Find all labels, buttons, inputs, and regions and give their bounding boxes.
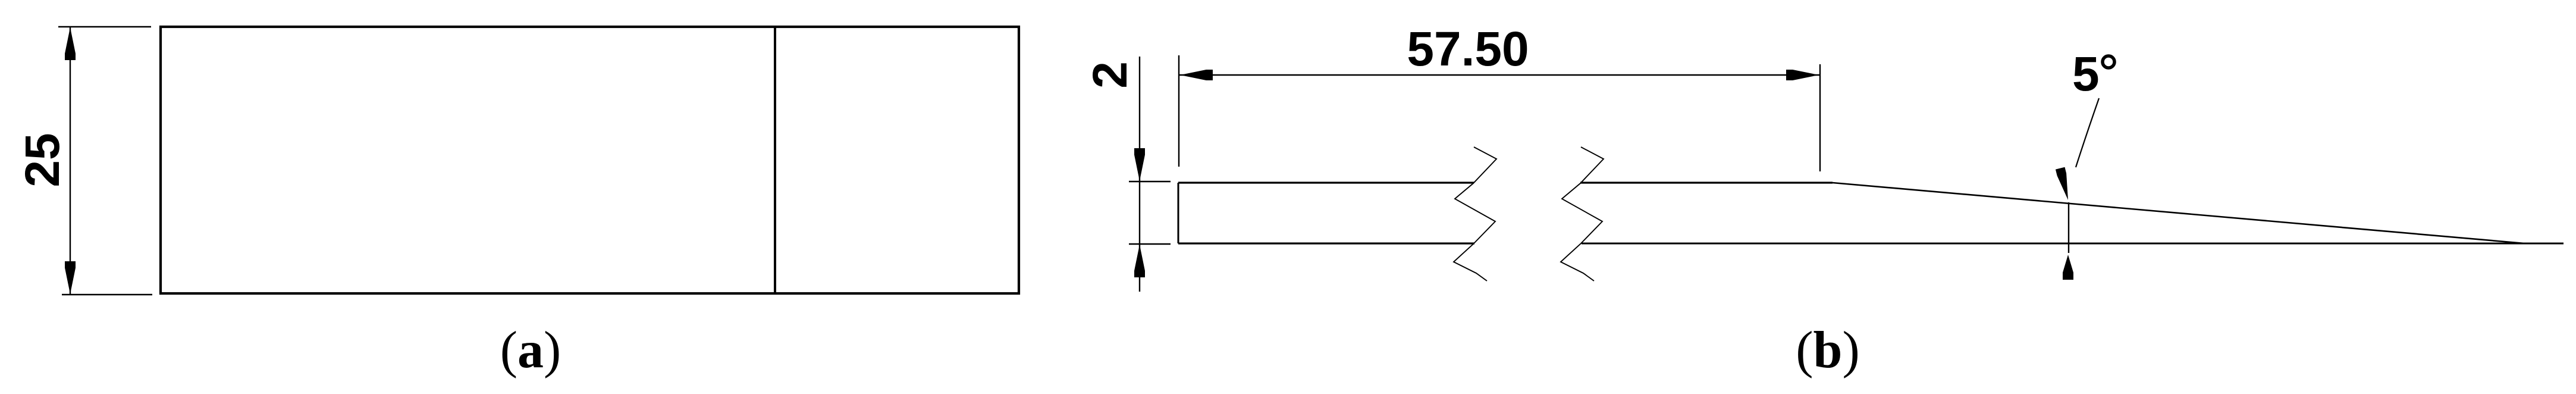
- arrow right (57.50 dim): [1786, 70, 1819, 80]
- degree symbol: [2103, 56, 2114, 68]
- extension line right (57.50 dim): [1819, 64, 1821, 171]
- svg-text:5: 5: [2072, 47, 2100, 101]
- bar left edge (b): [1178, 183, 1179, 243]
- angle arrow up (5 deg bottom): [2063, 255, 2073, 280]
- extension line top (25 dim): [58, 26, 151, 27]
- arrow down (25 dim bottom): [65, 261, 76, 294]
- leader curve (5 deg): [2076, 98, 2099, 167]
- bar top edge right segment (b): [1580, 182, 1833, 183]
- extension tick top (2 dim): [1129, 181, 1171, 182]
- arrow up (2 dim bottom): [1134, 245, 1145, 277]
- dimension line 25: [70, 27, 71, 295]
- svg-text:(b): (b): [1796, 321, 1860, 379]
- dimension line 2 (b): [1139, 57, 1140, 292]
- bar top edge left segment (b): [1178, 182, 1474, 183]
- svg-text:57.50: 57.50: [1407, 22, 1529, 76]
- svg-text:(a): (a): [500, 321, 561, 379]
- arrow up (25 dim top): [65, 27, 76, 60]
- arrow down (2 dim top): [1134, 148, 1145, 181]
- arrow left (57.50 dim): [1180, 70, 1213, 80]
- specimen rectangle (a): [161, 27, 1019, 293]
- extension line bottom (25 dim): [62, 294, 152, 295]
- bar bottom edge right segment (b): [1582, 243, 2564, 245]
- svg-text:2: 2: [1083, 61, 1137, 89]
- taper line 5 degrees (b): [1833, 183, 2525, 243]
- divider line (a): [774, 27, 776, 293]
- break zigzag right: [1561, 147, 1604, 281]
- dimension line 57.50: [1179, 74, 1819, 76]
- angle arc line (5 deg): [2068, 202, 2069, 253]
- bar bottom edge left segment (b): [1178, 242, 1474, 244]
- break zigzag left: [1454, 147, 1496, 281]
- leader arrow down (5 deg): [2056, 167, 2073, 201]
- extension line left (57.50 dim): [1178, 55, 1179, 167]
- extension tick bottom (2 dim): [1129, 243, 1171, 245]
- svg-text:25: 25: [15, 133, 70, 187]
